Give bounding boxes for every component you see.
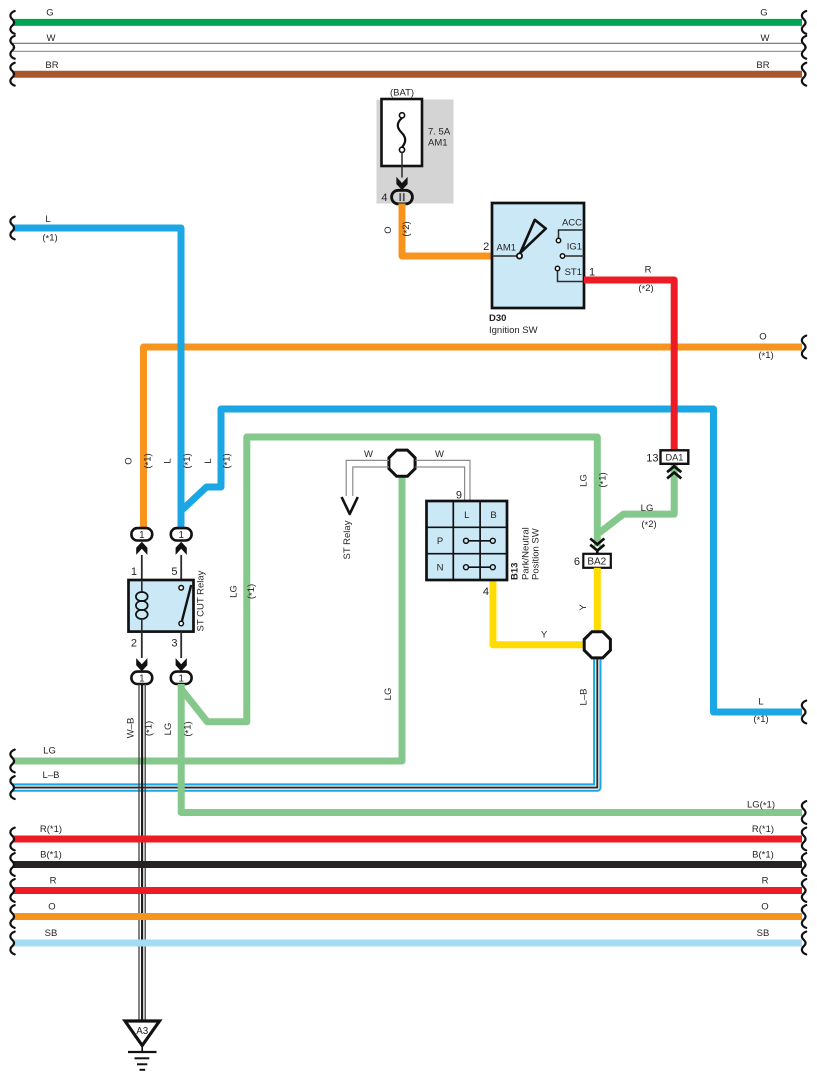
wire W left inner — [353, 467, 389, 496]
svg-text:W: W — [435, 449, 444, 460]
connector BA2 box — [583, 554, 611, 568]
B13 grid lines — [427, 501, 508, 580]
wire B(*1) bus — [13, 861, 802, 868]
ignition switch D30 box — [492, 203, 584, 308]
svg-text:(BAT): (BAT) — [390, 88, 414, 99]
B13 P row contact circles — [464, 538, 469, 543]
wire W left outer — [346, 460, 389, 496]
B13 N row contact circles — [464, 565, 469, 570]
svg-text:6: 6 — [574, 556, 580, 568]
svg-text:B(*1): B(*1) — [40, 850, 62, 861]
svg-text:BR: BR — [45, 60, 58, 71]
svg-text:(*1): (*1) — [182, 453, 194, 468]
svg-text:(*1): (*1) — [246, 584, 258, 599]
svg-text:2: 2 — [131, 638, 137, 650]
wire AM1 to pivot — [492, 255, 520, 257]
wire O bus bottom — [13, 913, 802, 920]
svg-text:IG1: IG1 — [567, 242, 582, 253]
svg-text:2: 2 — [483, 241, 489, 253]
fuse terminal circle top — [399, 113, 404, 118]
svg-text:Y: Y — [578, 604, 589, 611]
svg-text:R: R — [762, 876, 769, 887]
break symbols top left — [10, 11, 14, 34]
svg-text:LG: LG — [163, 723, 174, 736]
arrow up pin1 — [136, 542, 147, 555]
svg-text:W: W — [761, 33, 770, 44]
svg-text:L: L — [163, 458, 174, 463]
svg-text:O: O — [761, 902, 768, 913]
svg-text:(*2): (*2) — [638, 283, 653, 295]
relay switch contact bottom — [179, 621, 184, 626]
svg-text:13: 13 — [646, 453, 658, 465]
svg-text:R(*1): R(*1) — [752, 824, 774, 835]
wire W right inner — [415, 467, 464, 501]
wire R bus — [13, 887, 802, 894]
svg-text:LG: LG — [229, 585, 240, 598]
B13 N row contact line — [466, 566, 493, 568]
fuse terminal circle bottom — [399, 147, 404, 152]
wire G bus top — [13, 19, 802, 26]
svg-text:(*1): (*1) — [758, 350, 773, 362]
svg-text:(*1): (*1) — [42, 233, 57, 245]
svg-text:P: P — [437, 536, 443, 547]
wire fuse to connector — [401, 152, 403, 177]
svg-text:B(*1): B(*1) — [752, 850, 774, 861]
svg-text:L–B: L–B — [579, 689, 590, 706]
wire LG (*1) branch to B13 area — [182, 437, 597, 722]
break symbol L-B left — [10, 776, 14, 799]
svg-text:5: 5 — [171, 566, 177, 578]
arrow up pin5 — [176, 542, 187, 555]
svg-text:L: L — [203, 458, 214, 463]
svg-text:(*1): (*1) — [144, 721, 156, 736]
arrow into connector II — [396, 177, 407, 190]
wire R (*2) ignition to DA1 — [584, 280, 674, 450]
junction octagon W — [389, 450, 415, 476]
wire BR bus top — [13, 71, 802, 78]
ACC terminal circle — [556, 238, 560, 242]
svg-text:4: 4 — [381, 192, 387, 204]
connector DA1 box — [661, 450, 689, 464]
svg-text:G: G — [760, 8, 767, 19]
svg-text:O: O — [48, 902, 55, 913]
svg-text:ACC: ACC — [562, 218, 582, 229]
switch B13 box — [427, 501, 508, 580]
ACC terminal bracket — [559, 230, 585, 238]
svg-text:4: 4 — [483, 586, 489, 598]
wire L (*1) long loop right — [183, 409, 803, 712]
svg-text:O: O — [124, 457, 135, 464]
wire Y BA2 to junction — [594, 568, 601, 631]
svg-text:DA1: DA1 — [665, 453, 683, 463]
wire LG (*1) from pin3 to bus — [181, 684, 802, 813]
relay coil — [141, 580, 143, 593]
svg-text:1: 1 — [131, 566, 137, 578]
switch lever — [520, 220, 546, 253]
svg-text:D30: D30 — [489, 313, 506, 324]
svg-text:(*1): (*1) — [222, 453, 234, 468]
fuse element curve — [398, 118, 405, 147]
wire L (*1) top left — [13, 228, 181, 528]
fuse block gray background — [377, 100, 454, 204]
ST1 terminal bracket — [558, 271, 585, 282]
svg-text:O: O — [759, 332, 766, 343]
svg-text:R: R — [645, 265, 652, 276]
svg-text:G: G — [46, 8, 53, 19]
wire L-B bus bottom — [13, 659, 597, 787]
wire LG (*2) branch to DA1 — [599, 464, 674, 534]
svg-text:A3: A3 — [136, 1026, 149, 1037]
break symbol L left — [10, 217, 14, 240]
connector II oval — [392, 190, 413, 204]
svg-text:W: W — [364, 449, 373, 460]
wire pin5 lead — [180, 555, 182, 586]
fuse AM1 body — [382, 99, 423, 166]
break symbols top right — [802, 11, 806, 34]
wire SB bus — [13, 940, 802, 947]
arrow ST Relay — [342, 497, 358, 514]
IG1 terminal line — [565, 255, 584, 257]
connector oval pin5 blue — [171, 528, 192, 541]
connector oval pin1 orange — [131, 528, 152, 541]
svg-text:BR: BR — [756, 60, 769, 71]
svg-text:W–B: W–B — [126, 718, 137, 739]
svg-text:Y: Y — [541, 630, 548, 641]
svg-text:L: L — [464, 510, 469, 521]
connector BA2 chevrons — [590, 539, 604, 551]
svg-text:O: O — [383, 226, 394, 233]
wire O (*2) fuse to ignition switch — [402, 204, 492, 257]
svg-text:Ignition SW: Ignition SW — [489, 325, 538, 336]
wire R(*1) bus — [13, 836, 802, 843]
svg-text:(*2): (*2) — [401, 221, 413, 236]
svg-text:ST CUT Relay: ST CUT Relay — [196, 570, 207, 631]
svg-text:7. 5A: 7. 5A — [428, 127, 451, 138]
break symbol O bus right — [802, 336, 806, 359]
wire W right outer — [415, 460, 470, 501]
svg-text:R: R — [50, 876, 57, 887]
wire pin1 lead — [141, 555, 143, 580]
svg-text:LG(*1): LG(*1) — [747, 800, 775, 812]
connector oval pin3 — [171, 672, 192, 685]
switch pivot circle — [517, 253, 522, 258]
arrow down pin3 — [176, 658, 187, 671]
svg-text:R(*1): R(*1) — [40, 824, 62, 835]
wire pin3 lead — [180, 632, 182, 658]
wire Y B13 pin4 to junction — [493, 580, 583, 645]
svg-text:(*2): (*2) — [641, 519, 656, 531]
svg-text:AM1: AM1 — [428, 138, 448, 149]
svg-text:ST1: ST1 — [565, 267, 582, 278]
svg-text:3: 3 — [171, 638, 177, 650]
svg-text:L: L — [45, 214, 50, 225]
IG1 terminal circle — [560, 254, 564, 258]
break symbol L right — [802, 701, 806, 724]
svg-text:B: B — [490, 510, 496, 521]
ground bars — [128, 1051, 157, 1053]
wire W-B to ground — [139, 684, 145, 1021]
connector DA1 chevrons — [667, 466, 681, 478]
relay switch blade — [182, 585, 191, 622]
svg-text:LG: LG — [43, 746, 56, 757]
svg-text:LG: LG — [641, 503, 654, 514]
B13 P row contact line — [466, 540, 493, 542]
ST1 terminal circle — [555, 266, 559, 270]
break symbol LG left — [10, 750, 14, 773]
svg-text:AM1: AM1 — [497, 243, 517, 254]
connector oval pin2 — [131, 672, 152, 685]
svg-text:L: L — [758, 697, 763, 708]
svg-text:(*1): (*1) — [143, 453, 155, 468]
svg-text:BA2: BA2 — [587, 557, 606, 568]
svg-text:W: W — [47, 33, 56, 44]
svg-text:(*1): (*1) — [598, 472, 610, 487]
arrow down pin2 — [136, 658, 147, 671]
wire LG bus bottom left — [13, 478, 402, 762]
wire O (*1) bus middle — [144, 347, 803, 528]
svg-text:(*1): (*1) — [753, 714, 768, 726]
svg-text:L–B: L–B — [43, 770, 60, 781]
wire pin2 lead — [141, 632, 143, 658]
svg-text:Position SW: Position SW — [531, 528, 542, 580]
svg-text:N: N — [437, 563, 444, 574]
relay switch contact top — [179, 586, 184, 591]
relay ST CUT box — [129, 580, 194, 632]
svg-text:LG: LG — [579, 474, 590, 487]
ground stem — [141, 1046, 143, 1052]
ground triangle A3 — [125, 1021, 160, 1046]
svg-text:(*1): (*1) — [183, 721, 195, 736]
svg-text:ST Relay: ST Relay — [342, 520, 353, 559]
wire W bus top (double line) — [13, 43, 802, 51]
break symbol LG(*1) right — [802, 801, 806, 824]
svg-text:B13: B13 — [510, 563, 521, 580]
junction octagon yellow — [584, 632, 610, 658]
svg-text:SB: SB — [45, 928, 58, 939]
svg-text:SB: SB — [757, 928, 770, 939]
svg-text:LG: LG — [383, 688, 394, 701]
